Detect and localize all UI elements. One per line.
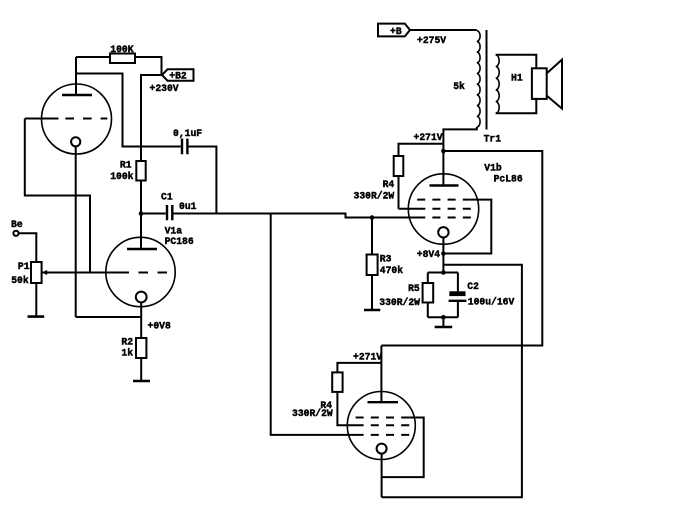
svg-text:+230V: +230V [150,83,179,94]
signal wire C1 to V1b grid [174,214,426,218]
capacitor 0,1uF [173,128,202,154]
input triode cathode [71,137,80,317]
wire 0,1uF to signal node [189,147,217,214]
V1b grid g2 (dashed) [399,208,471,210]
wire cathodes join [76,316,142,318]
svg-text:Be: Be [11,219,23,230]
svg-text:330R/2W: 330R/2W [292,408,333,419]
input triode grid (dashed) [25,118,108,120]
svg-text:1k: 1k [121,347,133,358]
output pentode g3 (dashed) [356,418,424,478]
transformer secondary [496,55,500,113]
wire plate to 100K [76,56,110,58]
resistor R1 100k [110,160,146,182]
wire node A to C1 [141,213,166,215]
wire R5 leads [427,273,429,318]
svg-text:330R/2W: 330R/2W [379,297,420,308]
svg-text:+0V8: +0V8 [148,321,171,332]
svg-text:330R/2W: 330R/2W [354,190,395,201]
transformer Tr1 primary 5k [453,31,480,127]
ground (R3) [364,309,380,312]
output pentode cathode [377,444,387,498]
svg-text:100u/16V: 100u/16V [468,296,515,307]
V1b grid g1 (dashed) [432,217,470,219]
svg-text:PcL86: PcL86 [494,174,523,185]
svg-text:H1: H1 [511,73,523,84]
svg-text:V1a: V1a [165,225,183,236]
wire R3 leads [371,218,373,310]
output pentode plate [368,401,399,403]
resistor R3 470k [367,253,404,276]
wire +B2 to R1 [141,75,164,161]
wire input triode grid to wiper net [25,119,90,273]
V1a cathode [136,292,147,338]
wire to ground [442,317,444,326]
svg-text:+B: +B [390,26,402,37]
wire R2 to ground [140,358,142,381]
wire +B to transformer [410,29,477,31]
node R3 top [370,215,375,220]
flag +B2 [162,69,194,81]
wire R4 bottom to g2 [398,176,400,209]
wire cathode node across R5/C2 [428,272,458,274]
svg-text:PC186: PC186 [165,236,194,247]
svg-text:C1: C1 [161,192,173,203]
ground (R2) [133,380,150,383]
resistor R4 330R/2W (V1b screen) [354,156,404,201]
svg-text:R4: R4 [383,179,395,190]
svg-text:C2: C2 [467,281,479,292]
node cathode/R5C2 [441,270,446,275]
tube V1b envelope [408,174,478,244]
V1a plate [127,214,157,250]
svg-text:100k: 100k [110,171,133,182]
svg-text:+8V4: +8V4 [417,249,440,260]
speaker H1 [511,60,562,109]
svg-text:0,1uF: 0,1uF [173,128,202,139]
tube V1a envelope [106,237,175,306]
output pentode g2 (dashed) [371,424,409,426]
wire R5/C2 bottom [428,316,458,318]
svg-text:0u1: 0u1 [179,201,197,212]
svg-text:P1: P1 [18,261,30,272]
V1b cathode [438,227,448,272]
svg-text:+271V: +271V [353,352,382,363]
svg-text:V1b: V1b [484,162,502,173]
wire plate to coupling cap [76,74,181,147]
wire cathode to right rail B [382,265,522,497]
wire Be to P1 [19,233,37,262]
wire R4 top to plate node [399,144,444,156]
svg-text:50k: 50k [11,275,29,286]
V1a grid (dashed) [106,272,171,274]
svg-text:+271V: +271V [414,132,443,143]
svg-text:+B2: +B2 [169,71,187,82]
label V1a PC186 [165,225,194,246]
flag +B [378,24,410,37]
wire R1 to node A [140,181,142,214]
ground (R5/C2) [435,326,453,329]
wire P1 bottom to ground [35,283,37,316]
svg-text:+275V: +275V [417,35,446,46]
wire primary bottom to V1b plate [443,127,476,186]
resistor R5 330R/2W [379,283,433,308]
input triode plate [62,57,92,95]
wire plate node to right rail [381,151,542,346]
potentiometer P1 50k [11,261,47,286]
svg-text:R2: R2 [121,337,133,348]
svg-text:R5: R5 [408,283,420,294]
wire R4 top to plate wire [337,363,381,373]
node R5/C2 bottom [441,315,446,320]
output pentode g1 (dashed) [371,434,409,436]
capacitor C1 0u1 [161,192,197,221]
node plate/Tr1 junction [441,149,446,154]
wire P1 wiper to V1a grid [42,272,106,274]
ground (P1) [28,315,45,318]
wire branch down to output tube grid [271,214,364,435]
output pentode envelope [347,392,415,460]
input terminal Be [11,219,23,236]
label V1b PcL86 [484,162,523,184]
svg-text:R3: R3 [380,253,392,264]
V1b grid g3 (dashed) [417,200,491,254]
svg-text:100K: 100K [110,44,133,55]
wire secondary to speaker [496,55,537,114]
input triode (top-left) envelope [42,84,112,154]
svg-text:R1: R1 [120,160,132,171]
svg-text:5k: 5k [453,81,465,92]
node A junction [139,211,144,216]
resistor R2 1k [121,337,146,359]
V1b plate [430,184,459,186]
svg-text:470k: 470k [380,265,403,276]
wire R4 bottom to g2 [337,392,363,425]
node cathode/g3 [441,251,446,256]
wire 100K to +B2 [135,57,162,75]
capacitor C2 100u/16V [449,273,515,318]
resistor 100K [110,44,135,63]
svg-text:Tr1: Tr1 [484,133,502,144]
transformer core [486,30,488,130]
wire rail to output tube plate [380,346,382,403]
resistor R4 330R/2W (output screen) [292,372,343,419]
